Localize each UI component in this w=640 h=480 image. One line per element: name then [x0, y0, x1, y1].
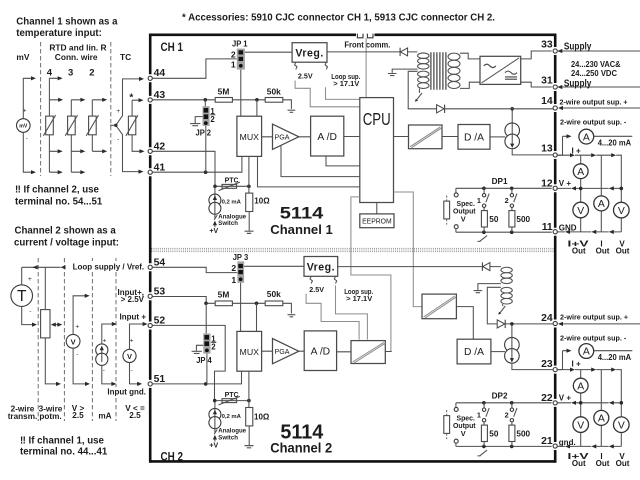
svg-text:Out: Out — [616, 247, 630, 256]
svg-text:10Ω: 10Ω — [254, 412, 270, 421]
svg-text:50k: 50k — [267, 289, 281, 299]
svg-text:A: A — [583, 347, 590, 358]
svg-text:V +: V + — [559, 393, 572, 402]
svg-text:2: 2 — [231, 49, 236, 59]
svg-text:DP1: DP1 — [492, 177, 508, 186]
svg-text:Switch: Switch — [218, 220, 238, 227]
svg-text:Out: Out — [572, 459, 586, 468]
svg-text:1: 1 — [231, 59, 236, 69]
svg-text:PGA: PGA — [275, 347, 290, 356]
svg-text:temperature input:: temperature input: — [16, 28, 102, 39]
svg-text:+: + — [75, 323, 79, 330]
svg-text:10Ω: 10Ω — [254, 196, 270, 205]
svg-text:> 17.1V: > 17.1V — [333, 79, 359, 88]
svg-text:I +: I + — [572, 359, 581, 368]
svg-text:2-wire output sup. +: 2-wire output sup. + — [560, 98, 628, 107]
svg-text:‼ If channel 2, use: ‼ If channel 2, use — [15, 185, 100, 196]
svg-text:DP2: DP2 — [492, 392, 508, 401]
svg-text:24...250 VDC: 24...250 VDC — [571, 68, 617, 78]
svg-text:Out: Out — [596, 459, 610, 468]
svg-text:CH 2: CH 2 — [161, 450, 184, 463]
svg-text:+: + — [23, 109, 27, 115]
svg-text:JP 1: JP 1 — [232, 38, 248, 48]
svg-text:51: 51 — [154, 374, 166, 385]
svg-text:50: 50 — [489, 430, 499, 439]
svg-text:2-wire output sup. +: 2-wire output sup. + — [560, 313, 628, 322]
svg-text:5M: 5M — [218, 289, 230, 299]
svg-text:+: + — [28, 276, 32, 283]
svg-text:2: 2 — [210, 115, 215, 124]
svg-text:mV: mV — [19, 124, 28, 130]
svg-text:A /D: A /D — [317, 132, 337, 143]
svg-text:43: 43 — [154, 90, 166, 101]
svg-text:2: 2 — [505, 410, 509, 419]
svg-text:23: 23 — [541, 359, 553, 370]
svg-text:1: 1 — [231, 275, 236, 285]
svg-text:12: 12 — [541, 178, 553, 189]
svg-text:500: 500 — [516, 430, 530, 439]
svg-text:Channel 1: Channel 1 — [270, 222, 333, 237]
svg-text:CH 1: CH 1 — [161, 41, 184, 54]
svg-text:Channel 2 shown as a: Channel 2 shown as a — [15, 226, 117, 237]
svg-text:+V: +V — [209, 443, 218, 450]
svg-text:V: V — [71, 338, 76, 347]
svg-text:13: 13 — [541, 144, 553, 155]
svg-text:22: 22 — [541, 393, 553, 404]
svg-text:V: V — [618, 421, 625, 432]
svg-text:transm.: transm. — [8, 412, 38, 421]
svg-text:V: V — [461, 429, 466, 438]
svg-text:MUX: MUX — [240, 347, 260, 357]
svg-text:T: T — [17, 288, 27, 305]
svg-text:1: 1 — [477, 196, 481, 205]
svg-text:-: - — [103, 367, 105, 374]
svg-text:2: 2 — [89, 68, 94, 79]
svg-text:31: 31 — [541, 75, 553, 86]
svg-text:4...20 mA: 4...20 mA — [598, 353, 632, 362]
svg-text:*: * — [129, 92, 133, 103]
svg-text:mA: mA — [98, 412, 111, 421]
svg-text:5M: 5M — [218, 87, 230, 97]
svg-text:PGA: PGA — [275, 133, 290, 142]
svg-text:MUX: MUX — [240, 132, 260, 142]
svg-text:V: V — [127, 352, 132, 361]
svg-text:CPU: CPU — [363, 109, 391, 129]
svg-text:current / voltage input:: current / voltage input: — [14, 238, 119, 249]
svg-text:> 17.1V: > 17.1V — [346, 294, 372, 303]
svg-text:+: + — [103, 337, 107, 344]
svg-text:0,2 mA: 0,2 mA — [222, 414, 242, 420]
svg-text:Supply: Supply — [564, 79, 592, 90]
svg-text:‼ If channel 1, use: ‼ If channel 1, use — [20, 436, 105, 447]
svg-text:1: 1 — [477, 410, 481, 419]
svg-text:-: - — [76, 351, 78, 358]
svg-text:V: V — [461, 215, 466, 224]
svg-text:Vreg.: Vreg. — [295, 48, 323, 60]
svg-text:Front comm.: Front comm. — [344, 40, 390, 50]
svg-text:I +: I + — [572, 146, 581, 155]
svg-text:JP 3: JP 3 — [233, 252, 249, 262]
svg-text:2-wire output sup. -: 2-wire output sup. - — [560, 334, 627, 343]
svg-text:4...20 mA: 4...20 mA — [598, 138, 632, 147]
svg-text:2.5: 2.5 — [129, 411, 141, 420]
svg-text:500: 500 — [516, 215, 530, 224]
svg-text:mV: mV — [16, 52, 29, 62]
svg-text:44: 44 — [154, 68, 166, 79]
svg-text:V: V — [577, 206, 584, 217]
svg-text:Input +: Input + — [120, 313, 147, 322]
svg-text:EEPROM: EEPROM — [362, 217, 392, 226]
svg-text:Out: Out — [616, 459, 630, 468]
svg-text:+: + — [130, 337, 134, 344]
svg-text:+V: +V — [209, 228, 218, 235]
svg-text:50k: 50k — [267, 86, 281, 96]
svg-text:14: 14 — [541, 96, 553, 107]
svg-text:3: 3 — [68, 68, 73, 79]
svg-text:2: 2 — [211, 342, 216, 351]
svg-text:21: 21 — [541, 436, 553, 447]
svg-text:D /A: D /A — [464, 347, 484, 358]
svg-text:-: - — [131, 367, 133, 374]
svg-text:> 2.5V: > 2.5V — [121, 295, 145, 304]
svg-text:A: A — [598, 414, 605, 425]
svg-text:A: A — [577, 167, 584, 178]
svg-text:54: 54 — [154, 257, 166, 268]
svg-text:-: - — [117, 137, 119, 143]
svg-text:A: A — [577, 381, 584, 392]
svg-text:Channel 2: Channel 2 — [270, 441, 332, 456]
svg-text:Conn. wire: Conn. wire — [55, 52, 98, 62]
svg-text:JP 4: JP 4 — [196, 355, 212, 365]
svg-text:Vreg.: Vreg. — [307, 262, 335, 274]
svg-text:Out: Out — [572, 247, 586, 256]
svg-text:Spec.: Spec. — [457, 416, 475, 423]
svg-text:50: 50 — [489, 215, 499, 224]
svg-text:A /D: A /D — [311, 347, 331, 358]
svg-text:2: 2 — [505, 196, 509, 205]
svg-text:Loop supply / Vref.: Loop supply / Vref. — [73, 263, 145, 272]
svg-text:2.5V: 2.5V — [298, 72, 314, 81]
svg-text:Switch: Switch — [218, 434, 238, 441]
svg-text:2: 2 — [231, 263, 236, 273]
svg-text:A: A — [598, 199, 605, 210]
svg-text:2.5V: 2.5V — [309, 285, 325, 294]
svg-text:* Accessories: 5910 CJC connec: * Accessories: 5910 CJC connector CH 1, … — [182, 12, 495, 23]
svg-text:2-wire output sup. -: 2-wire output sup. - — [560, 117, 627, 126]
svg-text:potm.: potm. — [39, 412, 61, 421]
svg-text:+: + — [117, 109, 121, 115]
svg-text:gnd.: gnd. — [559, 438, 576, 447]
svg-text:4: 4 — [47, 68, 53, 79]
svg-text:-: - — [26, 137, 28, 143]
svg-text:-: - — [29, 309, 31, 316]
svg-text:24: 24 — [541, 313, 553, 324]
svg-text:0,2 mA: 0,2 mA — [222, 200, 242, 206]
svg-text:V: V — [618, 206, 625, 217]
svg-text:5114: 5114 — [280, 203, 324, 222]
svg-text:V +: V + — [559, 179, 572, 188]
svg-text:33: 33 — [541, 40, 553, 51]
svg-text:Input gnd.: Input gnd. — [107, 388, 146, 397]
svg-text:2.5: 2.5 — [72, 411, 84, 420]
svg-text:TC: TC — [120, 52, 131, 62]
svg-text:terminal no. 54...51: terminal no. 54...51 — [15, 196, 103, 207]
svg-text:11: 11 — [542, 222, 553, 233]
svg-text:A: A — [583, 132, 590, 143]
svg-text:JP 2: JP 2 — [196, 128, 212, 138]
svg-text:GND: GND — [559, 224, 577, 233]
svg-text:Out: Out — [596, 247, 610, 256]
svg-text:Supply: Supply — [564, 41, 592, 52]
svg-text:53: 53 — [154, 286, 166, 297]
svg-text:Channel 1 shown as a: Channel 1 shown as a — [16, 16, 118, 27]
svg-text:D /A: D /A — [464, 132, 484, 143]
svg-text:terminal no. 44...41: terminal no. 44...41 — [20, 447, 108, 458]
svg-text:Spec.: Spec. — [457, 201, 475, 208]
svg-text:V: V — [577, 421, 584, 432]
